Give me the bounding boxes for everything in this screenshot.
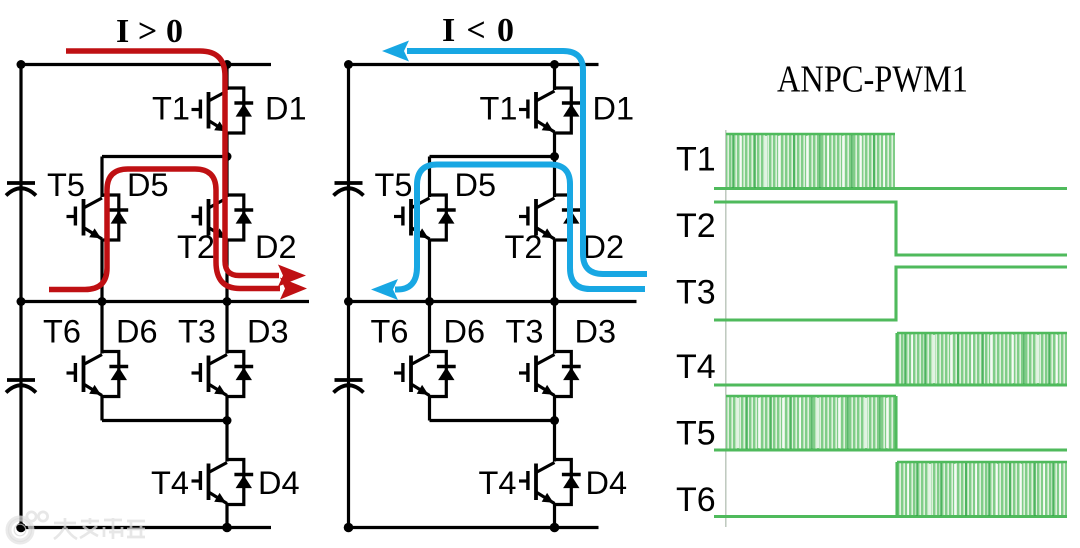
pwm burst texture: light slits	[738, 136, 1060, 515]
red current path through T1-T2 (I>0)	[66, 51, 279, 276]
svg-text:D3: D3	[575, 314, 617, 350]
node: bottom rail left corner (middle leg)	[344, 523, 354, 533]
transistor T6 with diode D6	[67, 352, 129, 397]
red arrowhead of T1-T2 path	[278, 265, 306, 287]
svg-text:T1: T1	[480, 91, 518, 127]
node: top rail / phase leg	[223, 60, 232, 69]
wire: clamp rail T5-to-midpoint (middle leg)	[430, 155, 555, 158]
wire: T6/T3 lower connector	[102, 419, 227, 422]
wire: clamp rail to T5 collector	[100, 157, 103, 198]
node: clamp midpoint junction	[223, 152, 232, 161]
transistor T2 with diode D2	[192, 195, 254, 240]
pwm burst texture: dark strokes	[733, 135, 1053, 516]
svg-text:T1: T1	[152, 91, 190, 127]
svg-text:T5: T5	[375, 167, 413, 203]
wire: clamp rail to T5 collector (middle leg)	[428, 157, 431, 198]
wire: bottom DC rail (middle leg)	[349, 526, 599, 529]
svg-text:I>0: I>0	[116, 13, 183, 50]
transistor T4 with diode D4 (middle leg)	[519, 460, 581, 505]
watermark logo and text	[9, 512, 146, 542]
svg-text:D4: D4	[258, 465, 300, 501]
wire: T3 emitter to T4 collector (middle leg)	[553, 396, 556, 462]
wire: T6/T3 lower connector (middle leg)	[430, 419, 555, 422]
svg-text:T3: T3	[506, 314, 544, 350]
svg-text:T5: T5	[47, 167, 85, 203]
red current path through T5/D5 clamp and T2 (I>0)	[49, 169, 280, 290]
svg-text:T4: T4	[479, 465, 517, 501]
wire: T5 emitter to T6 collector (middle leg)	[428, 239, 431, 354]
node: clamp midpoint junction (middle leg)	[550, 152, 559, 161]
svg-text:T3: T3	[178, 314, 216, 350]
capacitor C2 (lower DC-link) (middle leg)	[334, 380, 364, 393]
capacitor C1 (upper DC-link)	[6, 183, 36, 196]
node: mid rail left (neutral)	[17, 297, 26, 306]
wire: output mid rail (middle leg)	[349, 300, 637, 303]
svg-text:I<0: I<0	[442, 12, 514, 49]
svg-text:D4: D4	[586, 465, 628, 501]
wire: T6 emitter drop (middle leg)	[428, 396, 431, 421]
transistor T5 with diode D5	[67, 195, 129, 240]
transistor T3 with diode D3	[192, 352, 254, 397]
transistor T6 with diode D6 (middle leg)	[394, 352, 456, 397]
svg-text:T6: T6	[371, 314, 409, 350]
wire: output mid rail	[21, 300, 309, 303]
capacitor C2 (lower DC-link)	[6, 380, 36, 393]
node: top rail / phase leg (middle leg)	[550, 60, 559, 69]
svg-text:T6: T6	[676, 481, 716, 519]
node: mid rail / main leg (output)	[223, 297, 232, 306]
red arrowhead of clamp path	[280, 278, 307, 300]
transistor T3 with diode D3 (middle leg)	[519, 352, 581, 397]
svg-text:T2: T2	[177, 229, 215, 265]
wire: T6 emitter drop	[100, 396, 103, 421]
node: mid rail / main leg (output) (middle leg)	[550, 297, 559, 306]
blue arrowhead at neutral rail	[371, 279, 398, 300]
transistor T5 with diode D5 (middle leg)	[394, 195, 456, 240]
svg-text:D6: D6	[444, 314, 486, 350]
capacitor C1 (upper DC-link) (middle leg)	[334, 183, 364, 196]
transistor T1 with diode D1	[192, 88, 254, 133]
svg-text:D5: D5	[127, 167, 169, 203]
pwm time axis	[725, 130, 727, 527]
node: mid rail / T5-T6 branch (middle leg)	[425, 297, 434, 306]
svg-text:T4: T4	[151, 465, 189, 501]
wire: bottom DC rail	[21, 526, 271, 529]
wire: T1 emitter to T2 collector	[225, 132, 228, 197]
wire: left DC-link rail	[19, 65, 22, 528]
node: top rail left corner (middle leg)	[344, 60, 353, 69]
waveform T6: low then PWM burst	[897, 462, 1067, 517]
svg-text:D2: D2	[255, 229, 297, 265]
wire: top rail to T1 collector	[225, 65, 228, 91]
node: mid rail left (neutral) (middle leg)	[344, 297, 353, 306]
svg-text:D6: D6	[116, 314, 158, 350]
blue arrowhead at top rail	[382, 41, 409, 62]
wire: top rail to T1 collector (middle leg)	[553, 65, 556, 91]
wire: clamp rail T5-to-midpoint	[102, 155, 227, 158]
blue current path through D1 to top rail (I<0)	[407, 51, 647, 274]
wire: T2 emitter to T3 collector	[225, 239, 228, 354]
transistor T2 with diode D2 (middle leg)	[519, 195, 581, 240]
svg-text:T4: T4	[676, 348, 716, 386]
svg-text:T3: T3	[676, 274, 716, 312]
svg-text:T6: T6	[43, 314, 81, 350]
waveform T5: PWM burst then low	[726, 396, 896, 450]
wire: T5 emitter to T6 collector	[100, 239, 103, 354]
svg-text:T1: T1	[676, 141, 716, 179]
node: T3/T6 emitter junction (middle leg)	[550, 416, 559, 425]
node: bottom rail / T4 emitter (middle leg)	[550, 523, 560, 533]
wire: T2 emitter to T3 collector (middle leg)	[553, 239, 556, 354]
svg-text:D2: D2	[583, 229, 625, 265]
node: T3/T6 emitter junction	[223, 416, 232, 425]
waveform T1: PWM burst then low	[726, 134, 895, 189]
blue current path through T2 and D5 clamp (I<0)	[395, 165, 645, 290]
node: mid rail / T5-T6 branch	[98, 297, 107, 306]
waveform T3: low then high	[714, 267, 1067, 320]
waveform T4: low then PWM burst	[897, 333, 1067, 385]
node: bottom rail / T4 emitter	[222, 523, 232, 533]
svg-text:D5: D5	[455, 167, 497, 203]
node: bottom rail left corner	[16, 523, 26, 533]
svg-text:D1: D1	[593, 91, 635, 127]
transistor T4 with diode D4	[192, 460, 254, 505]
wire: T4 emitter to bottom rail	[225, 504, 228, 528]
svg-text:T5: T5	[676, 415, 716, 453]
wire: T1 emitter to T2 collector (middle leg)	[553, 132, 556, 197]
top DC rail (middle leg)	[349, 63, 599, 66]
wire: T3 emitter to T4 collector	[225, 396, 228, 462]
svg-text:ANPC-PWM1: ANPC-PWM1	[777, 59, 968, 101]
svg-text:D3: D3	[247, 314, 289, 350]
wire: T4 emitter to bottom rail (middle leg)	[553, 504, 556, 528]
waveform T2: high then low	[714, 202, 1067, 255]
svg-text:T2: T2	[676, 207, 716, 245]
svg-text:T2: T2	[505, 229, 543, 265]
wire: left DC-link rail (middle leg)	[347, 65, 350, 528]
top DC rail	[21, 63, 271, 66]
transistor T1 with diode D1 (middle leg)	[519, 88, 581, 133]
svg-text:D1: D1	[265, 91, 307, 127]
node: top rail left corner	[17, 60, 26, 69]
